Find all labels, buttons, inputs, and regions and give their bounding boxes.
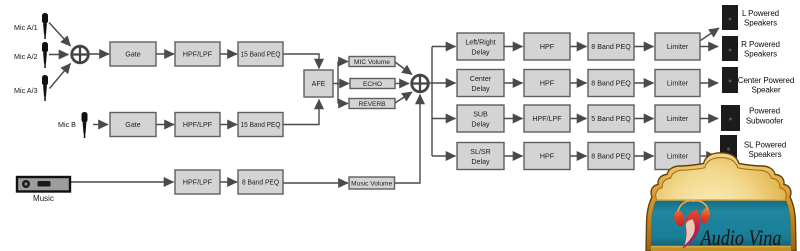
svg-text:HPF: HPF (540, 43, 555, 51)
svg-text:Limiter: Limiter (667, 115, 689, 123)
svg-text:SL Powered: SL Powered (744, 140, 786, 149)
svg-text:Delay: Delay (471, 49, 490, 57)
svg-text:HPF/LPF: HPF/LPF (183, 179, 213, 187)
svg-text:5 Band PEQ: 5 Band PEQ (591, 115, 631, 123)
svg-text:HPF: HPF (540, 153, 555, 161)
svg-text:Music Volume: Music Volume (351, 181, 392, 188)
svg-text:15 Band PEQ: 15 Band PEQ (241, 51, 281, 59)
svg-text:Powered: Powered (749, 107, 780, 116)
svg-text:ECHO: ECHO (363, 81, 382, 88)
svg-text:Delay: Delay (471, 158, 490, 166)
svg-text:Mic A/3: Mic A/3 (14, 86, 38, 95)
svg-text:8 Band PEQ: 8 Band PEQ (242, 179, 279, 187)
svg-text:Gate: Gate (125, 51, 140, 59)
svg-text:Speaker: Speaker (751, 85, 781, 94)
svg-text:Subwoofer: Subwoofer (746, 116, 784, 125)
svg-text:Speakers: Speakers (744, 50, 777, 59)
svg-text:HPF/LPF: HPF/LPF (183, 121, 213, 129)
svg-text:Limiter: Limiter (667, 80, 689, 88)
svg-text:Audio Vina: Audio Vina (699, 225, 782, 250)
svg-text:MIC Volume: MIC Volume (354, 59, 390, 66)
svg-text:SUB: SUB (473, 111, 488, 119)
svg-text:Limiter: Limiter (667, 153, 689, 161)
svg-text:HPF/LPF: HPF/LPF (532, 115, 562, 123)
svg-text:15 Band PEQ: 15 Band PEQ (241, 121, 281, 129)
svg-text:Music: Music (33, 194, 54, 203)
svg-text:Gate: Gate (125, 121, 140, 129)
svg-text:Limiter: Limiter (667, 43, 689, 51)
svg-text:HPF/LPF: HPF/LPF (183, 51, 213, 59)
svg-text:AFE: AFE (312, 80, 326, 88)
svg-text:Mic A/1: Mic A/1 (14, 23, 38, 32)
svg-text:Center Powered: Center Powered (738, 76, 794, 85)
svg-text:8 Band PEQ: 8 Band PEQ (591, 80, 631, 88)
svg-text:REVERB: REVERB (358, 101, 386, 108)
svg-text:Left/Right: Left/Right (465, 39, 495, 47)
svg-text:Mic B: Mic B (58, 120, 76, 129)
svg-text:HPF: HPF (540, 80, 555, 88)
svg-text:Delay: Delay (471, 85, 490, 93)
svg-text:8 Band PEQ: 8 Band PEQ (591, 153, 631, 161)
svg-text:Speakers: Speakers (749, 150, 782, 159)
svg-text:SL/SR: SL/SR (470, 148, 491, 156)
svg-text:Speakers: Speakers (744, 19, 777, 28)
svg-text:R Powered: R Powered (741, 40, 780, 49)
svg-text:Mic A/2: Mic A/2 (14, 52, 38, 61)
svg-text:L Powered: L Powered (742, 9, 779, 18)
svg-text:Center: Center (470, 75, 492, 83)
svg-text:8 Band PEQ: 8 Band PEQ (591, 43, 631, 51)
svg-text:Delay: Delay (471, 121, 490, 129)
